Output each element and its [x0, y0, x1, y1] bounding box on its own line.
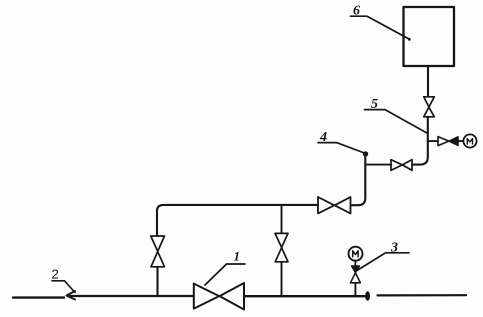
valve on manometer branch (horizontal bowtie)	[438, 137, 458, 146]
wire: left riser to pipe	[156, 267, 158, 296]
wire: cock to pipe	[354, 283, 356, 296]
wire: mid riser to pipe	[281, 262, 283, 296]
valve 1 (big bowtie on main pipe)	[194, 283, 244, 310]
wire: valve to manometer	[458, 140, 464, 142]
manometer M (right gauge)	[463, 134, 476, 147]
wire: branch y=164 to junction riser	[365, 164, 391, 166]
svg-text:2: 2	[52, 267, 59, 282]
label 5	[365, 97, 428, 134]
wire: mid riser from y=205 down	[281, 205, 283, 234]
pipe inlet stub (far left)	[13, 296, 64, 298]
main pipe: break to big valve	[70, 295, 194, 297]
pipe outlet stub (right)	[378, 294, 467, 296]
label 6	[351, 4, 411, 41]
valve below tank (vertical bowtie)	[424, 97, 435, 117]
label 2	[52, 267, 76, 293]
arrow / union at pipe break near label 2	[67, 291, 76, 300]
tank 6 (box)	[404, 7, 455, 66]
pipe end cap (bulb)	[365, 291, 370, 301]
valve on line y=205 (horizontal bowtie)	[318, 197, 351, 214]
wire: valve 5 down, corner to horizontal branch y=164	[412, 117, 428, 165]
gauge cock (small vertical bowtie)	[350, 266, 360, 283]
label 1	[205, 249, 245, 286]
wire: junction down, corner into horizontal line y=205	[351, 154, 366, 205]
label 4	[318, 130, 363, 153]
label 3	[357, 241, 409, 271]
wire: horizontal line y=205 from left corner to valve	[157, 205, 318, 236]
valve on y=164 branch (horizontal bowtie)	[391, 160, 412, 171]
valve on left riser (vertical bowtie)	[151, 236, 165, 267]
wire: tank bottom to valve 5	[427, 66, 429, 97]
svg-text:1: 1	[234, 249, 241, 264]
wire: gauge to cock	[354, 261, 356, 266]
wire: branch to manometer at y=141	[428, 140, 438, 142]
main pipe: big valve to end cap	[244, 295, 365, 297]
valve on mid riser (vertical bowtie)	[275, 233, 288, 261]
manometer M (bottom gauge)	[349, 247, 363, 261]
node 4 junction dot	[363, 151, 368, 156]
